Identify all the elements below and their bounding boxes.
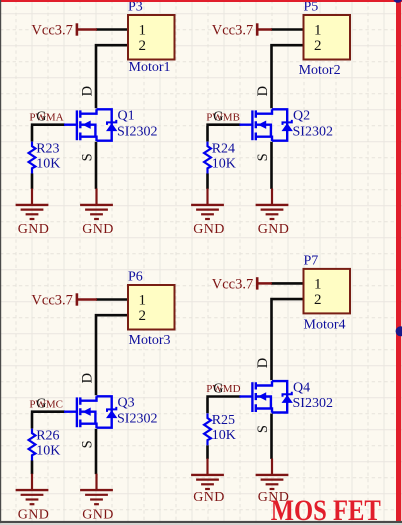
svg-text:SI2302: SI2302 (293, 396, 333, 411)
svg-text:GND: GND (18, 507, 50, 522)
svg-text:10K: 10K (212, 156, 236, 171)
svg-text:R24: R24 (212, 141, 235, 156)
svg-text:G: G (213, 381, 223, 396)
svg-text:G: G (36, 397, 46, 412)
svg-text:MOS FET: MOS FET (271, 494, 381, 525)
svg-text:10K: 10K (212, 428, 236, 443)
svg-text:GND: GND (82, 507, 114, 522)
svg-text:GND: GND (18, 222, 50, 237)
svg-text:Motor1: Motor1 (129, 60, 171, 75)
svg-text:SI2302: SI2302 (293, 124, 333, 139)
svg-text:SI2302: SI2302 (117, 411, 157, 426)
svg-text:R23: R23 (36, 141, 59, 156)
svg-text:P5: P5 (304, 0, 319, 15)
svg-text:R26: R26 (36, 428, 59, 443)
svg-text:GND: GND (258, 222, 290, 237)
svg-text:GND: GND (193, 222, 225, 237)
svg-text:Q2: Q2 (293, 109, 310, 124)
svg-text:GND: GND (193, 490, 225, 505)
svg-text:P6: P6 (128, 270, 143, 285)
svg-text:S: S (80, 440, 96, 448)
svg-text:S: S (255, 153, 271, 161)
svg-text:D: D (255, 86, 271, 96)
svg-text:P3: P3 (128, 0, 143, 15)
svg-text:S: S (255, 425, 271, 433)
svg-text:D: D (80, 86, 96, 96)
svg-text:10K: 10K (36, 156, 60, 171)
svg-text:Motor3: Motor3 (129, 333, 171, 348)
svg-text:PWMA: PWMA (29, 111, 63, 123)
svg-text:SI2302: SI2302 (117, 124, 157, 139)
svg-text:D: D (255, 358, 271, 368)
svg-text:Q1: Q1 (118, 109, 135, 124)
svg-text:Motor2: Motor2 (299, 63, 341, 78)
svg-text:G: G (36, 110, 46, 125)
svg-text:S: S (80, 153, 96, 161)
svg-text:D: D (80, 373, 96, 383)
svg-text:GND: GND (82, 222, 114, 237)
svg-text:R25: R25 (212, 413, 235, 428)
svg-text:G: G (213, 110, 223, 125)
svg-text:10K: 10K (36, 443, 60, 458)
svg-text:PWMD: PWMD (206, 383, 240, 395)
svg-text:Motor4: Motor4 (304, 318, 346, 333)
svg-text:Q4: Q4 (293, 380, 310, 395)
svg-text:P7: P7 (304, 253, 319, 268)
svg-text:Q3: Q3 (118, 396, 135, 411)
